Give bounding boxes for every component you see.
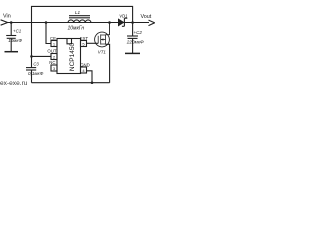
terminal Vin chevron xyxy=(1,20,8,25)
svg-text:NCP1450: NCP1450 xyxy=(69,43,76,72)
pin 5 box xyxy=(81,41,87,47)
wire GND pin4 xyxy=(87,71,93,83)
svg-text:L1: L1 xyxy=(75,10,81,15)
svg-text:EXT: EXT xyxy=(80,36,89,41)
pin 4 box xyxy=(81,67,87,73)
node C3 junction xyxy=(30,55,33,58)
wire VT1 drain xyxy=(106,23,110,35)
svg-text:0,1мкФ: 0,1мкФ xyxy=(28,71,44,76)
wire EXT to gate xyxy=(87,42,99,44)
pin 1 box xyxy=(51,41,57,47)
svg-text:1: 1 xyxy=(53,42,56,47)
transistor VT1 circle xyxy=(95,32,110,47)
svg-text:10мкФ: 10мкФ xyxy=(8,38,22,43)
svg-text:NC: NC xyxy=(49,60,55,65)
svg-text:+C2: +C2 xyxy=(134,30,143,35)
svg-text:Vin: Vin xyxy=(3,14,11,20)
svg-text:C3: C3 xyxy=(33,61,39,66)
svg-text:4: 4 xyxy=(82,68,85,73)
terminal Vout chevron xyxy=(149,20,155,26)
svg-text:OUT: OUT xyxy=(47,48,56,53)
transistor VT1 channel xyxy=(100,34,102,44)
capacitor C3 xyxy=(31,56,33,67)
svg-text:VD1: VD1 xyxy=(119,14,127,19)
IC NCP1450 body xyxy=(57,39,81,74)
wire C1 branch xyxy=(10,23,12,36)
node Vout junction xyxy=(131,21,134,24)
transistor VT1 gate bar xyxy=(97,36,99,44)
wire top rail xyxy=(8,22,150,24)
wire bottom rail xyxy=(32,82,110,84)
svg-text:2: 2 xyxy=(53,55,56,60)
svg-text:Vout: Vout xyxy=(141,14,152,20)
wire CE to pin1 xyxy=(46,23,51,44)
svg-text:5: 5 xyxy=(82,42,85,47)
node CE junction xyxy=(45,21,48,24)
transistor VT1 contacts xyxy=(101,35,106,45)
svg-text:10мкГн: 10мкГн xyxy=(68,26,85,32)
pin 3 box xyxy=(51,65,57,71)
node drain junction xyxy=(108,21,111,24)
svg-text:CE: CE xyxy=(50,36,56,41)
svg-text:3: 3 xyxy=(53,66,56,71)
svg-text:VT1: VT1 xyxy=(98,50,107,55)
svg-text:220мкФ: 220мкФ xyxy=(126,40,144,45)
svg-text:+C1: +C1 xyxy=(13,29,22,34)
wire C3 riser to pin2 xyxy=(32,55,52,57)
pin 2 box xyxy=(51,54,57,60)
wire VT1 source xyxy=(106,44,110,82)
diode VD1 xyxy=(118,19,124,26)
wire OUT bypass top xyxy=(32,6,133,56)
transistor VT1 body arrow xyxy=(101,39,106,41)
ground C1 bar xyxy=(5,51,19,53)
capacitor C2 xyxy=(127,35,138,37)
inductor L1 xyxy=(69,15,90,17)
svg-text:lex-exe.ru: lex-exe.ru xyxy=(0,80,28,87)
node Vin junction xyxy=(10,21,13,24)
capacitor C1 xyxy=(6,35,16,37)
IC notch xyxy=(67,39,72,44)
wire C2 branch xyxy=(132,23,134,37)
node GND junction xyxy=(91,81,94,84)
ground C2 bar xyxy=(125,52,140,54)
svg-text:GND: GND xyxy=(80,62,90,67)
